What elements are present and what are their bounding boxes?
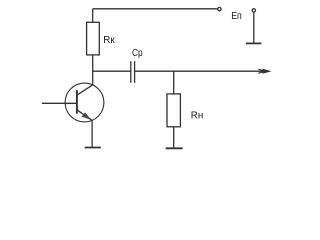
transistor collector diagonal <box>77 85 93 95</box>
terminal circle top supply wire <box>218 7 221 10</box>
ground bar under emitter <box>85 147 101 149</box>
capacitor Cp right plate <box>134 61 136 83</box>
wire Rn bottom to ground <box>173 127 175 149</box>
wire base lead <box>42 102 77 104</box>
transistor emitter diagonal <box>77 110 92 121</box>
wire vertical into Rk top <box>92 9 94 22</box>
svg-text:Ср: Ср <box>132 48 143 59</box>
svg-text:Еп: Еп <box>231 11 242 22</box>
capacitor Cp left plate <box>130 61 132 83</box>
resistor RK body <box>87 22 100 55</box>
wire output node to capacitor <box>92 70 131 72</box>
wire emitter to ground <box>91 120 93 147</box>
output arrow barbs <box>258 69 263 73</box>
transistor VT1 circle <box>65 83 104 122</box>
terminal circle En <box>252 9 255 12</box>
resistor RN body <box>167 94 180 127</box>
wire Rn branch vertical <box>173 71 175 94</box>
output arrowhead <box>263 69 272 74</box>
wire Rk bottom to collector node <box>92 55 94 85</box>
transistor base bar <box>76 90 78 114</box>
ground bar under En <box>246 42 262 44</box>
svg-text:Rк: Rк <box>103 35 115 46</box>
wire capacitor to output arrow <box>135 70 263 72</box>
ground bar under Rn <box>166 147 183 149</box>
transistor emitter arrowhead <box>81 112 91 120</box>
wire En terminal to ground <box>253 12 255 43</box>
svg-text:Rн: Rн <box>191 111 203 122</box>
wire top rail horizontal <box>93 8 218 10</box>
